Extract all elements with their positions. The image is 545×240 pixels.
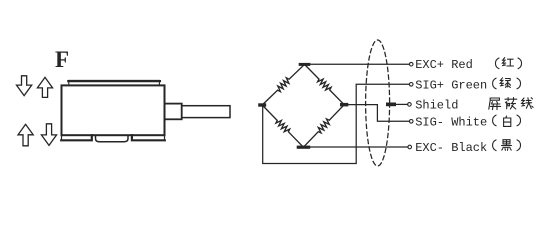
node EXC+ (bridge top terminal) bbox=[299, 63, 311, 66]
fullwidth paren open, line 5 bbox=[493, 140, 497, 151]
hanzi 绿 (green) bbox=[500, 78, 510, 88]
bottom plate left segment bbox=[61, 135, 92, 140]
force arrow down (top-left) bbox=[17, 76, 32, 96]
wire shield (bar to terminal) bbox=[396, 103, 408, 105]
force arrow down (bottom-right) bbox=[41, 124, 56, 146]
wire EXC- (bottom node to terminal) bbox=[310, 146, 408, 148]
fullwidth paren close, line 4 bbox=[517, 115, 521, 126]
bottom plate right segment bbox=[132, 135, 165, 140]
svg-text:SIG- White: SIG- White bbox=[415, 115, 487, 129]
svg-text:F: F bbox=[55, 47, 69, 72]
cable shield ellipse bbox=[366, 40, 390, 166]
resistor R3 (left-bottom arm) bbox=[262, 105, 303, 147]
hanzi 屏 (shield char 1) bbox=[489, 98, 501, 110]
fullwidth paren open, line 1 bbox=[495, 58, 499, 69]
terminal circle EXC+ bbox=[409, 62, 413, 66]
node SIG- (bridge right terminal) bbox=[340, 103, 348, 107]
terminal circle SIG+ bbox=[409, 83, 413, 87]
fullwidth paren open, line 2 bbox=[493, 78, 497, 89]
fullwidth paren close, line 2 bbox=[517, 78, 521, 89]
hanzi 红 (red) bbox=[502, 58, 513, 66]
bottom plate middle segment (rounded) bbox=[96, 136, 129, 142]
svg-text:EXC+ Red: EXC+ Red bbox=[415, 58, 473, 72]
hanzi 黑 (black) bbox=[502, 140, 512, 151]
fullwidth paren close, line 5 bbox=[517, 140, 521, 151]
resistor R4 (right-bottom arm) bbox=[303, 105, 344, 148]
load cell top plate thick edge bbox=[68, 80, 160, 82]
svg-text:Shield: Shield bbox=[415, 98, 458, 112]
load cell bottom plate top edge bbox=[62, 135, 165, 140]
shield terminal bar bbox=[386, 103, 396, 107]
force arrow up (bottom-left) bbox=[18, 124, 33, 146]
node SIG+ (bridge left terminal) bbox=[258, 103, 266, 106]
wire SIG- (right node to terminal) bbox=[348, 105, 409, 122]
node EXC- (bridge bottom terminal) bbox=[297, 146, 311, 149]
wire EXC+ (top node to terminal) bbox=[310, 63, 409, 65]
resistor R1 (left-top arm) bbox=[262, 64, 304, 105]
cable bbox=[182, 106, 230, 118]
fullwidth paren close, line 1 bbox=[518, 58, 522, 69]
cable connector bbox=[165, 104, 182, 120]
terminal circle Shield bbox=[408, 103, 412, 107]
force arrow up (top-right) bbox=[37, 77, 52, 97]
hanzi 线 (shield char 3) bbox=[522, 98, 534, 109]
svg-text:SIG+ Green: SIG+ Green bbox=[415, 78, 487, 92]
load cell body bbox=[62, 85, 165, 135]
terminal circle EXC- bbox=[408, 145, 412, 149]
wire SIG+ (left node loop under bridge) bbox=[263, 84, 410, 163]
fullwidth paren open, line 4 bbox=[493, 115, 497, 126]
hanzi 白 (white) bbox=[504, 116, 511, 126]
load cell top plate bbox=[69, 80, 160, 85]
resistor R2 (top-right arm) bbox=[305, 64, 345, 104]
hanzi 蔽 (shield char 2) bbox=[505, 98, 517, 109]
terminal circle SIG- bbox=[409, 120, 413, 124]
svg-text:EXC- Black: EXC- Black bbox=[415, 141, 487, 155]
